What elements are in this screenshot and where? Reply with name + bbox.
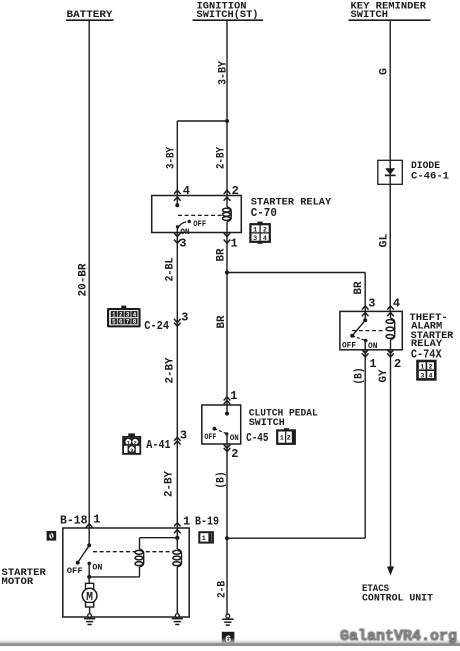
svg-text:3: 3 [253,235,257,243]
svg-text:1: 1 [369,357,376,371]
svg-text:C-70: C-70 [251,206,277,220]
svg-text:BR: BR [216,248,228,261]
svg-text:3: 3 [179,236,186,250]
svg-text:1: 1 [420,364,424,372]
svg-text:1: 1 [231,236,238,250]
svg-text:ON: ON [230,434,239,443]
svg-text:7: 7 [126,319,130,326]
svg-text:3-BY: 3-BY [166,147,178,169]
svg-text:2: 2 [394,357,401,371]
svg-text:2-BY: 2-BY [165,357,177,383]
svg-text:4: 4 [183,184,190,198]
svg-text:OFF: OFF [342,342,356,351]
svg-text:8: 8 [133,319,137,326]
svg-text:BR: BR [353,281,365,294]
svg-text:4: 4 [263,235,267,243]
svg-text:(B): (B) [216,472,228,489]
svg-text:2: 2 [119,311,123,318]
svg-text:3: 3 [420,372,424,380]
svg-text:1: 1 [202,535,206,543]
svg-text:3: 3 [368,296,375,310]
svg-text:2: 2 [231,447,238,461]
svg-text:4: 4 [393,296,400,310]
svg-text:C-45: C-45 [246,431,268,445]
svg-text:2-BY: 2-BY [164,471,176,497]
svg-text:1: 1 [183,514,190,528]
svg-text:2: 2 [263,226,267,234]
svg-text:2: 2 [287,435,291,443]
svg-text:OFF: OFF [204,433,216,442]
svg-text:SWITCH: SWITCH [249,417,285,429]
svg-text:1: 1 [112,311,116,318]
svg-text:GalantVR4.org: GalantVR4.org [340,629,457,645]
svg-text:OFF: OFF [67,567,83,576]
svg-text:ON: ON [92,564,102,573]
svg-text:CONTROL UNIT: CONTROL UNIT [362,592,433,604]
svg-text:20-BR: 20-BR [78,263,90,296]
svg-text:2-BY: 2-BY [216,147,228,169]
svg-text:3-BY: 3-BY [218,61,230,85]
svg-text:GY: GY [378,369,390,382]
svg-text:4: 4 [133,311,137,318]
svg-text:1: 1 [230,389,237,403]
svg-text:2: 2 [429,364,433,372]
svg-text:C-46-1: C-46-1 [411,171,449,183]
svg-text:1: 1 [280,435,284,443]
svg-text:OFF: OFF [193,220,206,229]
svg-text:ON: ON [180,228,190,237]
svg-text:6: 6 [119,319,123,326]
svg-text:BR: BR [216,315,228,328]
svg-text:1: 1 [93,513,100,527]
svg-text:C-24: C-24 [144,319,169,333]
svg-text:5: 5 [112,319,116,326]
svg-text:4: 4 [429,372,433,380]
svg-text:3: 3 [180,429,187,443]
svg-text:A-41: A-41 [146,438,170,452]
svg-text:B-18: B-18 [60,514,88,528]
svg-text:3: 3 [126,311,130,318]
svg-text:2-BL: 2-BL [165,257,177,281]
svg-text:G: G [379,68,391,75]
svg-text:BATTERY: BATTERY [67,9,114,21]
svg-text:1: 1 [253,226,257,234]
svg-text:B-19: B-19 [195,514,219,528]
svg-text:MOTOR: MOTOR [2,576,34,588]
svg-text:3: 3 [181,311,188,325]
svg-text:2-B: 2-B [217,581,229,598]
svg-text:ON: ON [368,342,378,351]
svg-text:GL: GL [379,233,391,247]
svg-text:C-74X: C-74X [411,348,442,362]
svg-text:2: 2 [232,184,239,198]
svg-text:(B): (B) [354,368,366,385]
